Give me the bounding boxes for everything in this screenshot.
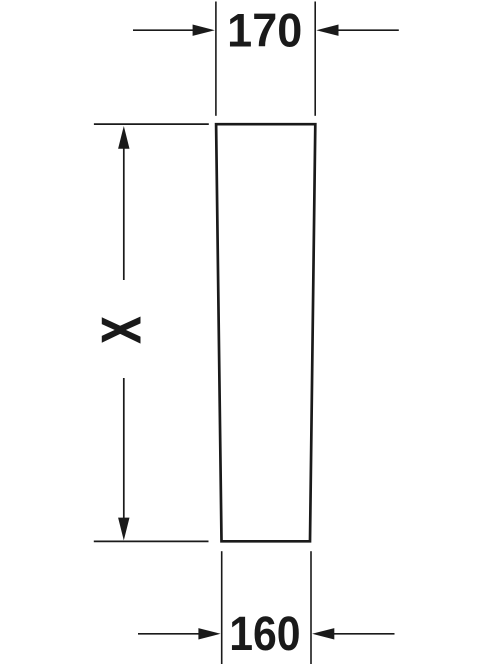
svg-text:160: 160 xyxy=(229,607,300,661)
dimension arrow right (170) xyxy=(316,25,399,36)
dimension arrow left (160) xyxy=(138,628,221,639)
extension line right of 160 dimension xyxy=(310,551,312,664)
vertical dimension line lower segment with down arrow (X) xyxy=(118,378,129,540)
svg-text:170: 170 xyxy=(227,3,302,56)
extension line right of 170 dimension xyxy=(314,2,316,116)
dimension arrow left (170) xyxy=(133,25,215,36)
dimension arrow right (160) xyxy=(312,628,394,639)
extension line left of 160 dimension xyxy=(221,551,223,664)
vertical dimension line upper segment with up arrow (X) xyxy=(118,126,129,280)
pedestal outline (trapezoid body) xyxy=(216,124,315,541)
extension line top of X dimension xyxy=(94,123,209,125)
extension line left of 170 dimension xyxy=(215,2,217,116)
extension line bottom of X dimension xyxy=(94,540,209,542)
svg-text:X: X xyxy=(92,317,153,343)
